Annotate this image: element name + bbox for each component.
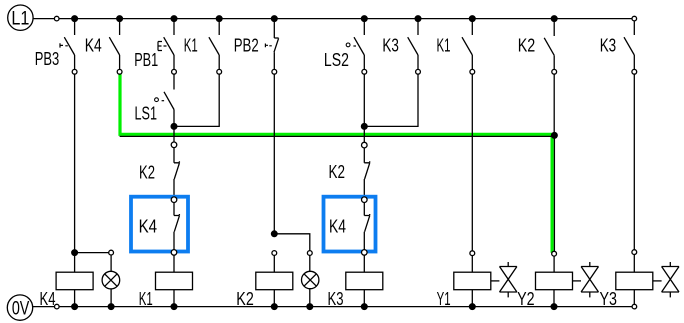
- wire: to Y3 coil: [633, 255, 635, 273]
- wire: K3b branch down to Y3 coil: [633, 74, 635, 250]
- wire: to Y2 coil: [553, 256, 555, 272]
- junction node Y2 at 0V rail: [551, 304, 557, 310]
- svg-text:PB3: PB3: [35, 49, 60, 69]
- contact K3 (NO, parallel with LS2): [408, 19, 421, 75]
- contact K1b (NO, drives Y1): [462, 19, 475, 75]
- valve symbol at Y1: [500, 262, 517, 297]
- wire: K3 coil to 0V rail: [363, 290, 365, 307]
- wire: to lamp2 branch: [274, 234, 310, 251]
- junction node Y1 at 0V rail: [469, 304, 475, 310]
- highlight box around left K4 interlock: [131, 197, 188, 252]
- wire: to K2 coil: [273, 255, 275, 272]
- wire: K1 coil to 0V rail: [173, 290, 175, 307]
- wire: lamp2 top lead: [309, 255, 311, 271]
- contact K3b (NO, drives Y3): [624, 21, 637, 74]
- wire: black bus under green highlight (K4 to K2b): [120, 135, 555, 137]
- wire: lamp2 bottom lead: [309, 289, 311, 307]
- junction node K2 coil at 0V rail: [271, 304, 277, 310]
- wire: K4 coil to 0V rail: [74, 290, 76, 307]
- wire: K2b branch down to Y2 coil (under green): [553, 74, 555, 251]
- contact K4 (NC interlock, left chain): [174, 203, 179, 250]
- coil K1: [156, 272, 193, 290]
- svg-text:K2: K2: [329, 162, 346, 182]
- wire: Y2 coil to valve 2: [573, 280, 582, 282]
- wire: K2 coil to 0V rail: [273, 290, 275, 307]
- label K1 (coil): [139, 289, 153, 309]
- junction node on top rail at PB2 branch: [271, 16, 277, 22]
- svg-text:LS1: LS1: [135, 104, 158, 124]
- wire: Y1 coil to valve 1: [491, 280, 500, 282]
- label LS2: [324, 50, 349, 70]
- wire: lamp1 top lead: [110, 255, 112, 271]
- label K3 (coil): [328, 289, 344, 309]
- terminal at top of lamp2 branch: [307, 251, 312, 256]
- junction node on top rail at K3 branch: [415, 16, 421, 22]
- wire: LS2 junction down to K2 contact (mid chain): [363, 126, 365, 142]
- power terminal L1: [8, 5, 33, 30]
- power terminal 0V: [7, 295, 32, 320]
- svg-text:K1: K1: [139, 289, 153, 309]
- label K3 (Y3 branch contact): [600, 36, 617, 56]
- junction node on top rail at K1 branch: [216, 16, 222, 22]
- junction node K4 coil at 0V rail: [72, 304, 78, 310]
- junction node at LS2/K3 parallel join: [361, 124, 367, 130]
- terminal below K4 contact (left interlock chain): [171, 250, 177, 256]
- junction node on top rail at K1b branch: [469, 16, 475, 22]
- wire: PB3 branch down to lamp junction: [74, 74, 76, 252]
- junction node on top rail at PB1 branch: [171, 16, 177, 22]
- junction node on top rail at K2b branch: [551, 16, 557, 22]
- pushbutton PB3 (NO): [60, 19, 77, 75]
- svg-text:K3: K3: [382, 36, 399, 56]
- label Y1: [437, 289, 451, 309]
- wire: highlighted (green) net from K4 contact to Y2/K2 branch: [120, 74, 552, 253]
- coil K2: [256, 272, 293, 290]
- svg-text:K1: K1: [184, 36, 198, 56]
- label LS1: [135, 104, 158, 124]
- label Y2: [517, 289, 535, 309]
- svg-text:LS2: LS2: [324, 50, 349, 70]
- label PB3: [35, 49, 60, 69]
- terminal below K4 contact (mid interlock chain): [362, 250, 368, 256]
- terminal on bottom rail near 0V: [55, 304, 60, 309]
- label K2 (left interlock): [139, 162, 155, 182]
- junction node lamp2 at 0V rail: [307, 304, 313, 310]
- wire: to lamp1 branch: [75, 252, 109, 254]
- wire: LS1 junction to K1 branch: [174, 74, 219, 126]
- valve symbol at Y2: [581, 262, 598, 297]
- svg-text:K4: K4: [85, 36, 102, 56]
- contact K2b (NO, drives Y2): [544, 19, 556, 75]
- coil K4: [56, 272, 93, 290]
- limit switch LS1 (NO, below PB1): [155, 74, 174, 126]
- label K2 (coil): [236, 289, 254, 309]
- wire: PB1 branch from junction down to K2 contact: [173, 126, 175, 142]
- label K4 (top contact): [85, 36, 102, 56]
- pushbutton PB1 (NO): [158, 19, 176, 75]
- svg-text:L1: L1: [11, 8, 29, 29]
- valve symbol at Y3: [662, 262, 679, 297]
- terminal at right end of bottom rail: [632, 304, 637, 309]
- terminal above K2 coil: [272, 251, 277, 256]
- limit switch LS2 (NO): [346, 19, 366, 75]
- svg-text:Y1: Y1: [437, 289, 451, 309]
- junction node on top rail at LS2 branch: [361, 16, 367, 22]
- junction node on top rail at PB3 branch: [72, 16, 78, 22]
- wire: Y3 coil to valve 3: [653, 280, 662, 282]
- contact K2 (NC interlock, mid chain): [364, 148, 369, 197]
- wire: LS2 contact down to junction: [363, 74, 365, 126]
- svg-text:Y2: Y2: [517, 289, 535, 309]
- junction node lamp1 at 0V rail: [108, 304, 114, 310]
- wire: to Y1 coil: [471, 256, 473, 273]
- indicator lamp (K4 pilot light): [102, 271, 120, 289]
- coil Y3 (solenoid): [616, 272, 653, 290]
- label K3 (top contact): [382, 36, 399, 56]
- label PB1: [134, 50, 158, 70]
- label K2 (Y2 branch contact): [518, 36, 536, 56]
- svg-text:Y3: Y3: [600, 289, 618, 309]
- label K4 (coil): [40, 289, 56, 309]
- highlight box around mid K4 interlock: [324, 197, 376, 252]
- wire: Y2 coil to 0V rail: [553, 290, 555, 307]
- wire: top supply rail from L1: [33, 18, 634, 20]
- svg-text:K2: K2: [518, 36, 536, 56]
- contact K1 (NO, parallel with PB1/LS1): [209, 19, 222, 75]
- svg-text:K4: K4: [139, 216, 158, 236]
- junction node K3 coil at 0V rail: [361, 304, 367, 310]
- terminal at top of lamp1 branch: [109, 250, 114, 255]
- wire: Y1 coil to 0V rail: [471, 290, 473, 307]
- wire: lamp1 bottom lead: [110, 289, 112, 307]
- label K4 (mid interlock): [329, 216, 346, 236]
- terminal above Y1 coil: [470, 251, 475, 256]
- contact K2 (NC interlock, left chain): [174, 148, 179, 197]
- coil Y2 (solenoid): [536, 272, 573, 290]
- svg-text:K3: K3: [328, 289, 344, 309]
- wire: Y3 coil to 0V rail end: [633, 290, 635, 305]
- wire: PB3 branch to K4 coil: [74, 253, 76, 273]
- wire: PB2 branch down to lamp2 junction: [273, 74, 275, 234]
- label K1 (top contact): [184, 36, 198, 56]
- label K2 (mid interlock): [329, 162, 346, 182]
- junction node on top rail at K4 branch: [117, 16, 123, 22]
- junction node PB3 branch / lamp1 wire: [72, 250, 78, 256]
- terminal above Y2 coil: [552, 251, 557, 256]
- label PB2: [234, 36, 259, 56]
- coil Y1 (solenoid): [454, 272, 491, 290]
- label K4 (left interlock): [139, 216, 158, 236]
- svg-text:K1: K1: [437, 36, 451, 56]
- terminal above K4 contact (left interlock chain): [171, 197, 177, 203]
- coil K3: [346, 272, 383, 290]
- terminal above K4 contact (mid interlock chain): [362, 197, 368, 203]
- contact K4 (NC interlock, mid chain): [364, 203, 369, 250]
- svg-text:K3: K3: [600, 36, 617, 56]
- contact K4 (NO): [109, 19, 122, 75]
- svg-text:K4: K4: [40, 289, 56, 309]
- junction node at LS1/K1 parallel join: [171, 124, 177, 130]
- wire: to K3 coil: [363, 255, 365, 272]
- wire: bottom 0V rail: [33, 306, 635, 308]
- junction node K1 coil at 0V rail: [171, 304, 177, 310]
- svg-text:K2: K2: [236, 289, 254, 309]
- terminal above K2 contact (left interlock chain): [171, 142, 177, 148]
- indicator lamp (K2 pilot light): [302, 271, 319, 288]
- svg-text:K4: K4: [329, 216, 346, 236]
- svg-text:PB1: PB1: [134, 50, 158, 70]
- wire: LS2 junction to K3 branch: [364, 74, 418, 126]
- junction node PB2 branch / lamp2 wire: [271, 231, 277, 237]
- svg-text:PB2: PB2: [234, 36, 259, 56]
- wire: to K1 coil: [173, 255, 175, 272]
- junction node where bus meets Y2 branch: [552, 133, 558, 139]
- pushbutton PB2 (NC): [265, 19, 278, 75]
- svg-text:0V: 0V: [12, 299, 30, 320]
- label K1 (Y1 branch contact): [437, 36, 451, 56]
- terminal above K2 contact (mid interlock chain): [362, 142, 368, 148]
- label Y3: [600, 289, 618, 309]
- terminal above Y3 coil: [632, 250, 637, 255]
- svg-text:K2: K2: [139, 162, 155, 182]
- wire: K1b branch down to Y1 coil: [471, 74, 473, 251]
- terminal at right end of top rail: [632, 16, 637, 21]
- terminal on top rail near L1: [54, 16, 59, 21]
